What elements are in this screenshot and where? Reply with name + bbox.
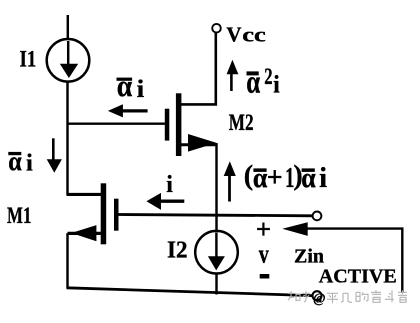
svg-text:+: + <box>267 163 283 194</box>
svg-text:i: i <box>26 150 33 177</box>
svg-text:α: α <box>246 65 260 101</box>
svg-text:α: α <box>301 163 316 194</box>
svg-text:i: i <box>273 72 280 99</box>
svg-text:Zin: Zin <box>294 246 325 268</box>
svg-text:M2: M2 <box>229 110 254 136</box>
svg-text:V: V <box>226 23 241 47</box>
svg-text:cc: cc <box>242 25 266 47</box>
svg-text:i: i <box>319 163 327 194</box>
svg-text:I2: I2 <box>167 237 188 264</box>
svg-text:i: i <box>137 76 145 103</box>
svg-text:α: α <box>117 68 133 103</box>
svg-text:(: ( <box>244 161 253 192</box>
svg-text:v: v <box>259 239 270 269</box>
svg-text:I1: I1 <box>20 46 37 72</box>
svg-text:ACTIVE: ACTIVE <box>319 265 397 287</box>
svg-text:α: α <box>8 145 22 176</box>
svg-text:i: i <box>166 172 173 198</box>
svg-text:M1: M1 <box>7 203 31 229</box>
svg-text:α: α <box>253 163 268 194</box>
svg-text:2: 2 <box>264 64 272 89</box>
svg-text:@: @ <box>313 291 326 306</box>
